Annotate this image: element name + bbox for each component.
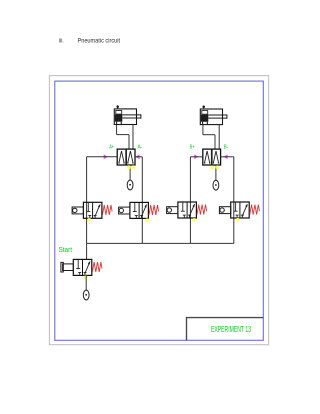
wire valve A port 1 to source (129, 165, 131, 180)
svg-text:Start: Start (59, 247, 73, 254)
wire pilot B right horizontal (220, 156, 233, 158)
spring S2 (149, 205, 159, 215)
wire cylinder A dogleg horizontal (117, 134, 129, 136)
title block border (187, 318, 264, 341)
valve S4 3/2 roller valve (231, 202, 250, 218)
valve S2 3/2 roller valve (130, 202, 149, 218)
port highlight valve A port 1 (127, 165, 131, 169)
wire Start valve to source (85, 276, 87, 291)
valve U1 5/2 pilot valve A (117, 149, 135, 165)
valve S1 3/2 roller valve (83, 202, 102, 218)
wire signal line through valve S2 (141, 157, 143, 244)
wire cylinder A left port down (116, 125, 118, 135)
svg-text:B+: B+ (190, 144, 195, 150)
roller actuator S3 (167, 207, 178, 214)
port highlight S3 (192, 218, 196, 222)
valve U2 5/2 pilot valve B (203, 149, 221, 165)
pilot arrow valve A right (135, 154, 139, 159)
roller actuator S1 (72, 207, 83, 214)
svg-text:A+: A+ (109, 144, 114, 150)
drawing frame outer (49, 76, 268, 345)
valve S5 Start push button 3/2 valve (73, 259, 92, 275)
cylinder A (114, 105, 141, 124)
push button actuator S5 (61, 262, 73, 272)
port highlight S5 (84, 275, 88, 279)
port highlight S4 (236, 218, 240, 222)
svg-text:A-: A- (138, 144, 143, 150)
wire pilot A right horizontal (135, 156, 142, 158)
port highlight S2 (145, 218, 149, 222)
port highlight valve B port 3 (215, 165, 219, 169)
wire pilot B left horizontal (190, 156, 202, 158)
air source for valve A (127, 180, 133, 190)
wire to valve B port 4 (214, 135, 216, 149)
roller actuator S4 (219, 207, 230, 214)
spring S3 (197, 205, 207, 215)
svg-text:EXPERIMENT 13: EXPERIMENT 13 (211, 324, 251, 334)
wire signal line through valve S4 (233, 157, 235, 244)
svg-text:B-: B- (224, 144, 229, 150)
wire cylinder B dogleg horizontal (203, 134, 215, 136)
pilot arrow valve B left (194, 154, 198, 159)
cylinder B (200, 105, 227, 124)
port highlight valve B port 1 (210, 165, 214, 169)
pilot arrow valve B right (223, 154, 227, 159)
valve S3 3/2 roller valve (178, 202, 197, 218)
wire cylinder A right port to valve A port 2 (132, 125, 134, 150)
port highlight valve A port 3 (132, 165, 136, 169)
air source for valve B (213, 180, 219, 190)
roller actuator S2 (119, 207, 130, 214)
wire pilot A left horizontal (87, 156, 118, 158)
wire bus to Start valve (86, 243, 88, 259)
wire to valve A port 4 (128, 135, 130, 149)
spring S1 (103, 205, 113, 215)
wire supply bus (87, 242, 234, 244)
spring S5 (92, 262, 102, 272)
wire signal line through valve S3 (189, 157, 191, 244)
wire signal line through valve S1 (86, 157, 88, 244)
wire cylinder B left port down (202, 125, 204, 135)
svg-text:iii.: iii. (59, 37, 64, 44)
wire valve B port 1 to source (215, 165, 217, 180)
svg-text:Pneumatic circuit: Pneumatic circuit (78, 37, 121, 44)
pilot arrow valve A left (104, 154, 108, 159)
drawing frame inner (55, 81, 263, 340)
port highlight S1 (87, 218, 91, 222)
air source for Start valve (83, 290, 89, 300)
wire cylinder B right port to valve B port 2 (218, 125, 220, 150)
spring S4 (250, 205, 260, 215)
